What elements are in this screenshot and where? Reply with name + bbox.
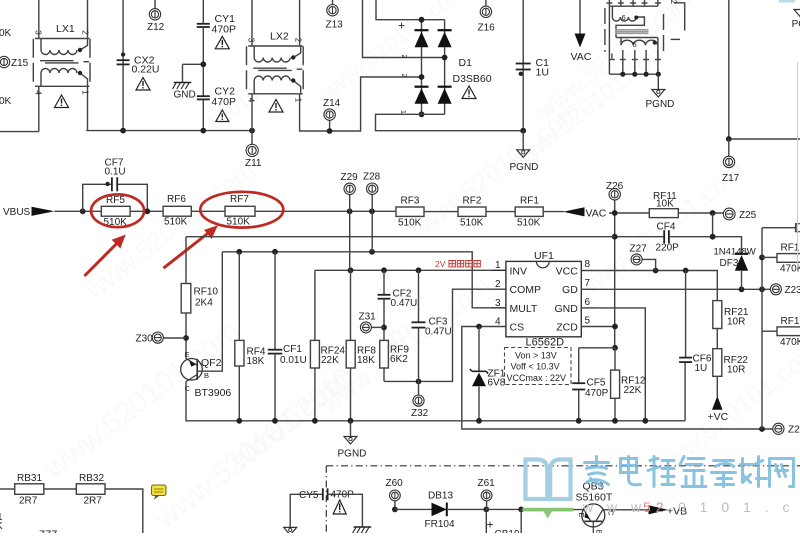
wire CY1-CY2 <box>202 27 204 96</box>
junction AC1 node <box>442 55 448 61</box>
dash-dot section boundary <box>326 466 800 533</box>
svg-text:510K: 510K <box>517 218 541 229</box>
svg-text:GND: GND <box>554 303 578 315</box>
svg-text:470P: 470P <box>212 24 237 36</box>
svg-text:3: 3 <box>33 30 42 35</box>
warning triangle D1 <box>462 86 476 99</box>
wire RF3-RF2 <box>424 211 458 213</box>
partial PGND symbol at right edge <box>794 10 800 18</box>
ground right of CY5 <box>354 526 372 528</box>
junction CF3 top <box>416 267 422 273</box>
svg-text:2: 2 <box>669 0 678 5</box>
resistor RF3 <box>396 207 424 216</box>
junction right column <box>759 286 765 292</box>
svg-text:DF3: DF3 <box>720 258 739 269</box>
svg-text:RF5: RF5 <box>106 195 125 206</box>
wire INV to RF24 <box>314 270 316 340</box>
wire LX1 pin3 to top edge <box>38 0 40 39</box>
capacitor CB19 (cut) <box>485 509 487 533</box>
resistor RF21 <box>713 301 722 329</box>
svg-text:CB19: CB19 <box>495 529 520 533</box>
blue book watermark icon <box>526 460 571 500</box>
wire LX2 pin1 to bridge AC2 <box>300 77 422 131</box>
svg-text:2V: 2V <box>435 259 446 269</box>
warning triangle CY2 <box>216 110 229 122</box>
warning triangle LX2 <box>269 100 283 113</box>
net arrow VAC (down) <box>575 34 586 48</box>
svg-text:Von > 13V: Von > 13V <box>515 351 557 361</box>
svg-text:Z28: Z28 <box>363 172 381 183</box>
faint edge line <box>797 62 799 268</box>
red annotation arrow 2 <box>163 226 217 268</box>
svg-text:5: 5 <box>585 316 591 327</box>
junction CF7 right <box>144 208 150 214</box>
junction Z29 tap <box>347 208 353 214</box>
wire RF11-CF4 link <box>712 213 714 237</box>
svg-text:CY5: CY5 <box>299 490 319 501</box>
wire AC neutral bottom line <box>86 130 252 132</box>
svg-text:ZZZ: ZZZ <box>39 530 57 534</box>
wire RF5-RF6 <box>130 210 163 212</box>
svg-text:1U: 1U <box>536 67 549 79</box>
wire Z17 column <box>728 0 730 139</box>
capacitor CF2 <box>378 294 391 296</box>
wire DB13 to Z61 <box>447 508 487 510</box>
svg-text:COMP: COMP <box>510 284 542 296</box>
test point Z13 <box>327 5 338 16</box>
wire bottom-left to edge <box>0 131 39 133</box>
wire RF10 to QF2 emitter <box>185 313 187 359</box>
wire CF2-RF9 <box>383 299 385 341</box>
svg-text:FR104: FR104 <box>425 519 455 530</box>
wire COMP network <box>384 289 506 381</box>
svg-text:w w w: w w w <box>582 499 646 515</box>
wire GND stub <box>182 64 184 82</box>
svg-text:RF3: RF3 <box>401 196 420 207</box>
svg-text:2R7: 2R7 <box>84 496 103 507</box>
svg-text:10R: 10R <box>727 365 745 376</box>
test point Z28 <box>371 195 373 212</box>
junction CF5 bottom <box>576 418 582 424</box>
svg-text:RF1: RF1 <box>781 316 800 327</box>
svg-text:6: 6 <box>622 13 626 22</box>
junction DF3 anode <box>739 286 745 292</box>
svg-text:Voff < 10.3V: Voff < 10.3V <box>511 362 560 372</box>
test point Z32 <box>418 381 420 395</box>
wire GD line <box>581 288 770 290</box>
choke LX1 <box>33 39 90 87</box>
wire Z28 drop <box>371 211 373 252</box>
svg-text:470K: 470K <box>780 337 800 348</box>
net arrow +VC (up) <box>712 396 723 410</box>
diode D1 bottom-right <box>438 86 452 88</box>
test point Z17 <box>728 139 730 156</box>
wire VAC feed <box>579 0 581 34</box>
svg-text:510K: 510K <box>460 218 484 229</box>
junction Z27 <box>653 268 659 274</box>
resistor RF2 <box>458 207 486 216</box>
svg-text:RF6: RF6 <box>167 194 186 205</box>
svg-text:UF1: UF1 <box>534 250 554 262</box>
junction CF6 top <box>683 268 689 274</box>
svg-text:2: 2 <box>80 30 89 35</box>
wire right at y139 <box>729 138 800 140</box>
test point Z61 <box>481 490 492 501</box>
svg-text:RF2: RF2 <box>463 196 482 207</box>
svg-text:18K: 18K <box>357 355 375 366</box>
capacitor CF5 <box>572 382 585 384</box>
svg-text:0K: 0K <box>0 28 12 39</box>
capacitor CF1 <box>274 252 276 350</box>
net arrow +VB (right) <box>649 505 669 514</box>
svg-text:6V8: 6V8 <box>488 378 506 389</box>
svg-text:Z11: Z11 <box>245 158 262 169</box>
junction Z26/VAC <box>612 210 618 216</box>
choke LX2 <box>247 46 304 94</box>
wire QF2 base to MULT line <box>197 252 222 371</box>
svg-text:0 1 0 1 . c o m: 0 1 0 1 . c o m <box>678 499 800 515</box>
svg-text:510K: 510K <box>164 217 188 228</box>
red annotation arrow 1 <box>84 235 125 276</box>
svg-text:Z14: Z14 <box>323 98 341 109</box>
svg-text:CF4: CF4 <box>657 222 676 233</box>
bridge column left <box>421 20 423 115</box>
wire rail up to CF6 <box>684 362 686 421</box>
test point Z12 <box>149 9 160 20</box>
junction RF12 bottom <box>612 418 618 424</box>
resistor RF7 <box>225 206 255 216</box>
svg-text:2: 2 <box>400 74 407 78</box>
svg-text:4: 4 <box>247 98 256 103</box>
junction Z26/CF4 <box>612 234 618 240</box>
op-amp IC U1 UF1 L6562D <box>506 261 581 336</box>
svg-text:Z23: Z23 <box>785 285 800 296</box>
svg-text:1: 1 <box>80 90 89 95</box>
junction CY mid <box>200 61 206 67</box>
svg-text:3: 3 <box>495 298 501 309</box>
svg-text:Z15: Z15 <box>11 58 29 69</box>
resistor RF9 <box>380 340 389 368</box>
svg-text:B: B <box>595 529 604 533</box>
wire CY5 left <box>290 494 323 527</box>
svg-text:Z60: Z60 <box>386 478 404 489</box>
svg-text:LX1: LX1 <box>56 23 75 35</box>
test point Z23 <box>770 284 781 295</box>
svg-text:1: 1 <box>399 110 406 114</box>
dashed note box Von/Voff/VCCmax <box>505 348 572 385</box>
secondary stub bracket (right of transformer) <box>674 3 685 31</box>
svg-text:52: 52 <box>643 499 669 515</box>
junction ZF1 top <box>476 324 482 330</box>
warning triangle CY5 <box>333 500 346 514</box>
wire to RF19 <box>762 256 777 258</box>
junction CF4/RF11 <box>710 234 716 240</box>
warning triangle CY1 <box>215 36 229 49</box>
junction CF5/RF12 node <box>612 345 618 351</box>
wire bridge AC1 riser <box>363 0 445 58</box>
power ground PGND center <box>350 421 352 437</box>
junction RF8 bottom / PGND <box>348 418 354 424</box>
junction Z28 bottom <box>369 249 375 255</box>
svg-text:2K4: 2K4 <box>195 298 213 309</box>
junction CF7 left <box>80 208 86 214</box>
svg-text:510K: 510K <box>398 218 422 229</box>
wire Z12 stub <box>154 0 156 9</box>
svg-text:8: 8 <box>585 259 591 270</box>
svg-text:0.47U: 0.47U <box>425 327 452 338</box>
junction + rail <box>419 17 425 23</box>
junction ZCD <box>612 324 618 330</box>
wire RB31-RB32 <box>44 488 77 490</box>
green highlight wire <box>523 508 574 512</box>
capacitor CF7 <box>111 177 113 191</box>
resistor RF19 (cut at edge) <box>777 254 800 263</box>
test point Z30 <box>163 337 186 339</box>
svg-text:6K2: 6K2 <box>390 354 408 365</box>
wire CF7 left leg <box>83 184 112 211</box>
svg-text:VCCmax : 22V: VCCmax : 22V <box>507 373 567 383</box>
svg-text:22K: 22K <box>624 385 642 396</box>
capacitor CX2 <box>117 59 130 61</box>
junction Z28 tap <box>369 208 375 214</box>
svg-text:470P: 470P <box>585 388 609 399</box>
svg-text:0.22U: 0.22U <box>132 64 160 76</box>
svg-text:Z17: Z17 <box>722 173 740 184</box>
wire C1 column <box>522 0 524 131</box>
svg-text:K: K <box>0 521 3 532</box>
svg-text:5: 5 <box>633 40 637 49</box>
wire to RF18 <box>762 330 777 332</box>
svg-text:Z13: Z13 <box>326 20 344 31</box>
svg-text:ZCD: ZCD <box>556 322 578 334</box>
test point Z60 <box>390 490 401 501</box>
svg-text:RF1: RF1 <box>781 243 800 254</box>
diode DF3 1N4148W <box>735 253 748 255</box>
wire RF2-RF1 <box>486 211 515 213</box>
pin underlines <box>492 270 595 326</box>
svg-text:VBUS: VBUS <box>3 207 31 218</box>
zener ZF1 6V8 <box>478 327 480 372</box>
resistor RF11 <box>649 209 678 218</box>
svg-text:18K: 18K <box>247 356 265 367</box>
junction Z60 <box>392 507 398 513</box>
wire CY1 top <box>202 0 204 24</box>
resistor RF1 <box>515 207 543 216</box>
svg-text:RF10: RF10 <box>194 287 219 298</box>
junction CY2 bottom <box>200 128 206 134</box>
resistor RB32 <box>76 484 105 495</box>
svg-text:INV: INV <box>510 266 528 278</box>
wire RF8 top <box>350 270 352 340</box>
test point Z22 <box>773 423 784 434</box>
power ground PGND below C1 <box>522 131 524 150</box>
dot below C1 <box>519 72 523 76</box>
red annotation ellipse around RF7 <box>200 192 283 228</box>
wire CS line to right <box>462 327 773 430</box>
junction GND pin bottom <box>642 418 648 424</box>
wire LX1 pin2 to top edge <box>87 0 89 39</box>
wire right edge column <box>761 228 763 429</box>
svg-text:220P: 220P <box>656 243 680 254</box>
wire to DB13 <box>395 508 432 510</box>
capacitor CY2 <box>197 95 210 97</box>
svg-text:VAC: VAC <box>571 51 592 63</box>
wire CF3 top <box>418 270 420 322</box>
resistor RF10 <box>181 284 191 314</box>
wire MULT network line <box>222 252 506 308</box>
wire CF5 node <box>579 347 615 349</box>
svg-text:Z27: Z27 <box>630 244 648 255</box>
test point Z15 <box>0 56 10 67</box>
diode D1 top-left <box>415 29 429 31</box>
wire bridge - rail <box>376 114 524 130</box>
wire RF22 to +VC <box>716 376 718 397</box>
svg-text:Z22: Z22 <box>788 425 800 436</box>
junction RF19 left <box>759 255 765 261</box>
resistor RF4 <box>238 252 240 341</box>
test point Z31 <box>371 326 384 328</box>
svg-text:Z29: Z29 <box>341 172 359 183</box>
svg-text:22K: 22K <box>321 355 339 366</box>
junction Z31 <box>381 325 387 331</box>
red note 2V左右正常 <box>435 259 446 269</box>
svg-text:2: 2 <box>495 279 501 290</box>
junction RF24 bottom <box>312 418 318 424</box>
wire ZCD pin to junction <box>581 326 615 328</box>
junction CF2 top <box>381 267 387 273</box>
transistor QB3 S5160T <box>582 504 605 527</box>
svg-text:PGND: PGND <box>510 162 539 173</box>
svg-text:1N4148W: 1N4148W <box>714 247 756 258</box>
wire CF4 line left <box>615 236 665 238</box>
junction CF3 bottom / Z32 <box>416 379 422 385</box>
resistor RF12 <box>611 370 620 398</box>
svg-text:+: + <box>398 19 405 33</box>
resistor RF24 <box>310 340 319 368</box>
wire CX2 column <box>122 0 124 131</box>
junction Z29/RF8 <box>348 267 354 273</box>
svg-text:GND: GND <box>174 90 196 101</box>
svg-text:VAC: VAC <box>586 208 607 220</box>
svg-text:D1: D1 <box>459 57 473 69</box>
capacitor CY1 <box>197 23 210 25</box>
wire CF2 top <box>383 270 385 295</box>
wire RF9 bottom <box>383 368 385 381</box>
wire QB3 to +VB <box>603 509 649 511</box>
svg-text:LX2: LX2 <box>270 31 289 43</box>
junction Z17 <box>726 136 732 142</box>
test point Z29 <box>349 195 351 212</box>
junction CF1 bottom <box>272 418 278 424</box>
diode D1 top-right <box>438 29 452 31</box>
wire RF1 to VAC arrow <box>543 211 564 213</box>
svg-text:1: 1 <box>495 260 501 271</box>
svg-text:PGND: PGND <box>792 19 800 30</box>
dot on CX2 wire <box>121 52 125 56</box>
bridge column right <box>444 20 446 115</box>
svg-text:0K: 0K <box>0 96 12 107</box>
svg-text:Z31: Z31 <box>359 312 377 323</box>
junction LX2 pin4 / Z11 <box>249 128 255 134</box>
svg-text:7: 7 <box>585 278 591 289</box>
junction ZF1 bottom <box>476 418 482 424</box>
svg-text:2: 2 <box>294 38 303 43</box>
svg-text:Z16: Z16 <box>478 23 496 34</box>
transformer T (top right, cut off) <box>605 0 664 74</box>
junction AC2 node <box>419 74 425 80</box>
yellow note icon <box>152 485 167 500</box>
watermark url text <box>582 499 800 515</box>
svg-text:0.01U: 0.01U <box>280 355 307 366</box>
wire CF7 right leg <box>117 184 147 211</box>
svg-text:470P: 470P <box>212 96 237 108</box>
wire LX2 pin2 to top edge <box>299 0 301 46</box>
wire RF7-RF3 <box>255 210 396 212</box>
wire LX2 pin4 down <box>251 94 253 131</box>
junction QB3 branch <box>518 507 524 513</box>
svg-text:VCC: VCC <box>556 266 579 278</box>
svg-text:6: 6 <box>585 297 591 308</box>
junction Z30 <box>183 335 189 341</box>
wire GND to CY junction <box>183 63 204 65</box>
wire QF2 collector / bottom PGND rail <box>186 382 685 421</box>
wire RF6-RF7 <box>191 210 225 212</box>
wire Z29 drop <box>349 211 351 270</box>
ground GND <box>174 82 192 84</box>
svg-text:E: E <box>185 350 190 359</box>
test point Z25 <box>723 208 735 220</box>
junction RF4 bottom <box>236 418 242 424</box>
capacitor C1 <box>516 63 531 65</box>
svg-text:CF1: CF1 <box>283 344 302 355</box>
dot CF7 line <box>105 182 109 186</box>
junction Z22 line <box>759 426 765 432</box>
wire down from junction <box>520 509 522 533</box>
resistor RF18 (cut at edge) <box>777 327 800 336</box>
svg-text:PGND: PGND <box>646 99 675 110</box>
power ground PGND below transformer <box>657 74 659 89</box>
svg-text:MULT: MULT <box>510 303 538 315</box>
wire bridge + rail riser <box>376 0 445 20</box>
resistor RF22 <box>713 349 722 377</box>
wire LX2 pin3 to top edge <box>251 0 253 46</box>
svg-text:1: 1 <box>294 98 303 103</box>
svg-text:QF2: QF2 <box>201 357 222 369</box>
wire Z13 stub <box>332 0 334 5</box>
svg-text:CF5: CF5 <box>587 378 606 389</box>
wire VBUS line <box>55 210 102 212</box>
wire CY5 right <box>328 494 363 527</box>
junction Z25 tap <box>710 210 716 216</box>
svg-text:RF1: RF1 <box>520 196 539 207</box>
junction C1/PGND <box>520 128 526 134</box>
wire LX1 pin1 down <box>87 86 89 130</box>
svg-text:1U: 1U <box>695 363 708 374</box>
wire to QB3 branch <box>486 508 521 510</box>
wire VCC to RF21 <box>581 271 717 301</box>
svg-text:CS: CS <box>510 322 525 334</box>
svg-text:RB31: RB31 <box>17 473 42 484</box>
svg-text:Z32: Z32 <box>411 408 429 419</box>
test point Z16 <box>480 6 491 17</box>
capacitor CY5 <box>322 488 324 500</box>
wire Z16 stub <box>485 0 487 6</box>
svg-text:PGND: PGND <box>338 449 367 460</box>
svg-text:4: 4 <box>33 90 42 95</box>
test point Z14 <box>329 121 331 132</box>
test point Z26 <box>609 189 620 200</box>
svg-text:Z12: Z12 <box>147 22 165 33</box>
